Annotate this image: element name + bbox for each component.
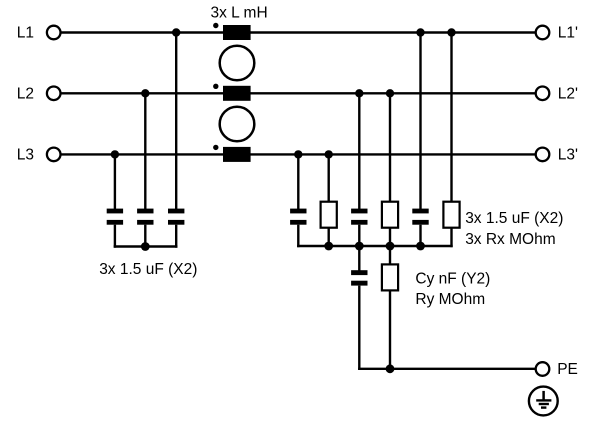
wire R2 to right bus bbox=[389, 228, 391, 247]
capacitor C4 bbox=[290, 209, 306, 225]
node right bus R2 bbox=[386, 242, 395, 251]
node L3 to R1 bbox=[325, 150, 333, 158]
inductor L winding 2 bbox=[213, 84, 251, 101]
terminal PE bbox=[536, 362, 550, 376]
svg-text:L1': L1' bbox=[558, 25, 578, 42]
wire L2 to C2 bbox=[144, 93, 146, 209]
terminal L1' bbox=[536, 26, 550, 40]
wire Cy to PE bus bbox=[358, 286, 360, 370]
wire PE bus bbox=[358, 368, 536, 370]
svg-text:3x 1.5 uF (X2): 3x 1.5 uF (X2) bbox=[99, 261, 197, 278]
inductor L core circle top bbox=[220, 46, 255, 81]
svg-text:L2': L2' bbox=[558, 86, 578, 103]
node L1 left branch bbox=[172, 28, 180, 36]
inductor L winding 1 bbox=[213, 23, 251, 40]
wire L3 to C4 bbox=[297, 154, 299, 209]
svg-text:PE: PE bbox=[557, 361, 578, 378]
wire R3 to right bus bbox=[450, 228, 452, 247]
capacitor C1 bbox=[107, 209, 123, 225]
wire right bus to Ry bbox=[389, 246, 391, 265]
node left bus bbox=[141, 242, 150, 251]
terminal L3 bbox=[47, 148, 61, 162]
ground symbol bbox=[529, 387, 558, 416]
svg-text:Ry MOhm: Ry MOhm bbox=[415, 291, 485, 308]
wire C5 to right bus bbox=[358, 225, 360, 248]
terminal L3' bbox=[536, 148, 550, 162]
svg-text:L1: L1 bbox=[17, 25, 34, 42]
wire L2 to C5 bbox=[358, 93, 360, 209]
capacitor C2 bbox=[137, 209, 153, 225]
wire Ry to PE bus bbox=[389, 290, 391, 370]
node right bus C5 bbox=[355, 242, 364, 251]
wire R1 to right bus bbox=[328, 228, 330, 247]
wire left bus bbox=[114, 245, 178, 247]
node right bus R1 bbox=[324, 242, 333, 251]
svg-text:3x 1.5 uF (X2): 3x 1.5 uF (X2) bbox=[465, 210, 563, 227]
node L2 to R2 bbox=[386, 89, 394, 97]
inductor L winding 3 bbox=[213, 145, 251, 162]
svg-text:L3: L3 bbox=[17, 147, 34, 164]
resistor R3 bbox=[443, 202, 459, 228]
wire L3 bbox=[61, 153, 536, 155]
wire L1 to R3 bbox=[450, 33, 452, 203]
wire L1 to C3 bbox=[175, 33, 177, 210]
wire L2 to R2 bbox=[389, 93, 391, 202]
wire L2 bbox=[61, 92, 536, 94]
svg-text:Cy nF (Y2): Cy nF (Y2) bbox=[415, 271, 490, 288]
terminal L2' bbox=[536, 87, 550, 101]
node L1 to R3 bbox=[447, 28, 455, 36]
node L3 to C4 bbox=[294, 150, 302, 158]
node L3 left branch bbox=[111, 150, 119, 158]
wire L1 to C6 bbox=[419, 33, 421, 210]
wire C3 to left bus bbox=[175, 225, 177, 248]
terminal L2 bbox=[47, 87, 61, 101]
resistor Ry bbox=[382, 264, 398, 290]
resistor R2 bbox=[382, 202, 398, 228]
svg-text:L2: L2 bbox=[17, 86, 34, 103]
svg-text:3x Rx MOhm: 3x Rx MOhm bbox=[465, 231, 555, 248]
wire C6 to right bus bbox=[419, 225, 421, 248]
inductor L core circle bottom bbox=[220, 107, 255, 142]
terminal L1 bbox=[47, 26, 61, 40]
wire right bus bbox=[297, 245, 453, 247]
node right bus C6 bbox=[416, 242, 425, 251]
capacitor C6 bbox=[412, 209, 428, 225]
svg-text:3x L mH: 3x L mH bbox=[211, 5, 268, 22]
node L2 left branch bbox=[141, 89, 149, 97]
wire C2 to left bus bbox=[144, 225, 146, 248]
wire L3 to C1 bbox=[114, 154, 116, 209]
node L1 to C6 bbox=[416, 28, 424, 36]
capacitor Cy bbox=[351, 270, 367, 285]
capacitor C3 bbox=[168, 209, 184, 225]
wire C4 to right bus bbox=[297, 225, 299, 248]
resistor R1 bbox=[321, 202, 337, 228]
wire right bus to Cy bbox=[358, 246, 360, 271]
wire C1 to left bus bbox=[114, 225, 116, 248]
wire L3 to R1 bbox=[328, 154, 330, 202]
capacitor C5 bbox=[351, 209, 367, 225]
node PE bus bbox=[386, 364, 395, 373]
wire L1 bbox=[61, 31, 536, 33]
node L2 to C5 bbox=[355, 89, 363, 97]
svg-text:L3': L3' bbox=[558, 147, 578, 164]
